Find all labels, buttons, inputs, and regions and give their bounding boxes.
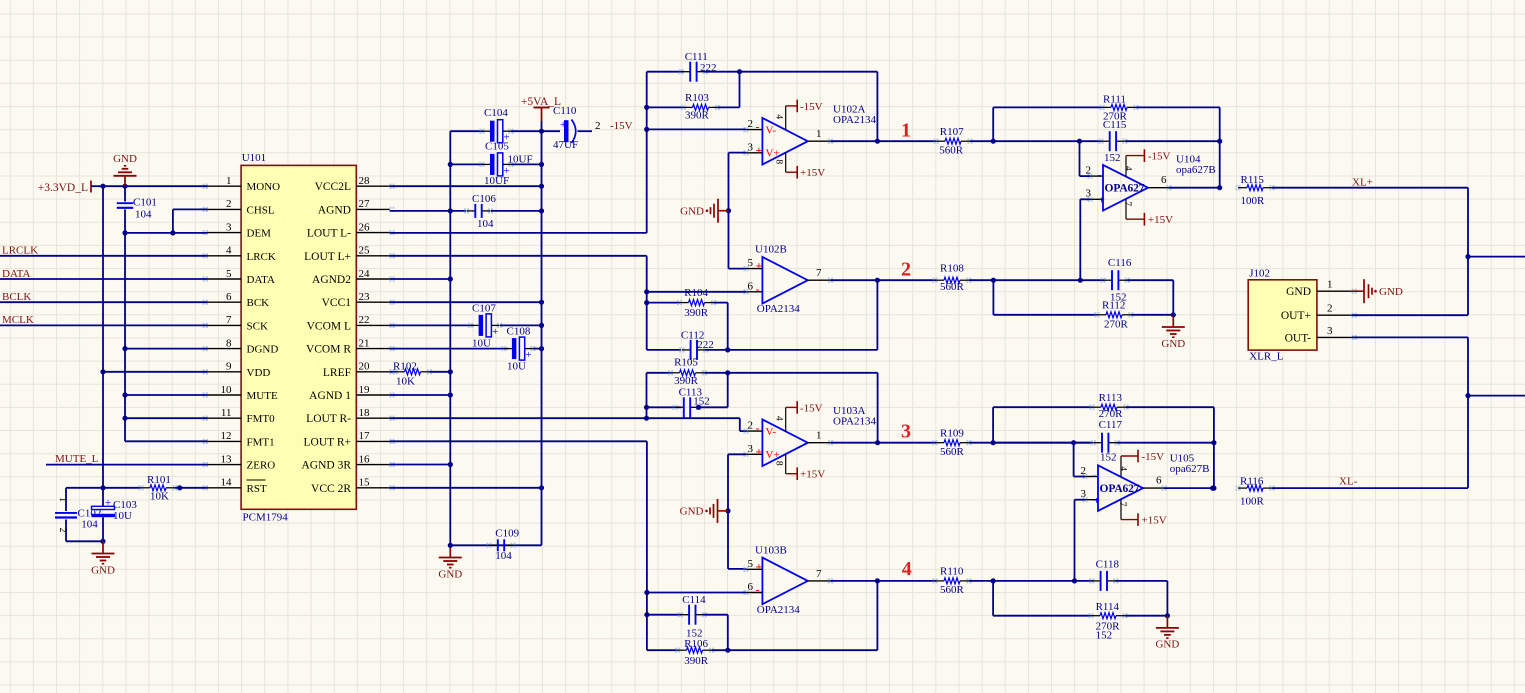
svg-text:CHSL: CHSL (247, 204, 275, 216)
svg-text:AGND 3R: AGND 3R (301, 460, 351, 472)
svg-text:GND: GND (1155, 639, 1179, 651)
svg-text:2: 2 (1327, 303, 1333, 315)
svg-text:C105: C105 (485, 141, 509, 153)
svg-text:LREF: LREF (323, 367, 351, 379)
svg-text:opa627B: opa627B (1176, 164, 1216, 176)
svg-text:560R: 560R (940, 584, 965, 596)
svg-text:6: 6 (748, 280, 754, 292)
svg-text:R103: R103 (685, 92, 709, 104)
svg-text:OPA2134: OPA2134 (757, 604, 800, 616)
svg-text:3: 3 (901, 421, 911, 443)
svg-text:24: 24 (359, 268, 371, 280)
svg-text:+: + (492, 326, 498, 338)
svg-text:C116: C116 (1108, 257, 1132, 269)
svg-text:PCM1794: PCM1794 (243, 512, 289, 524)
svg-text:VCC1: VCC1 (322, 297, 352, 309)
svg-text:C109: C109 (495, 528, 519, 540)
svg-text:C108: C108 (507, 326, 531, 338)
svg-text:104: 104 (477, 218, 494, 230)
svg-text:2: 2 (57, 528, 68, 533)
svg-text:6: 6 (226, 291, 232, 303)
svg-text:R102: R102 (393, 360, 417, 372)
svg-text:4: 4 (1123, 166, 1133, 171)
svg-text:100R: 100R (1240, 496, 1265, 508)
svg-text:MCLK: MCLK (2, 314, 34, 326)
svg-text:+15V: +15V (1142, 515, 1167, 527)
svg-text:-: - (1093, 470, 1097, 482)
svg-text:4: 4 (1118, 466, 1128, 471)
svg-text:2: 2 (595, 120, 601, 132)
svg-text:104: 104 (81, 519, 98, 531)
svg-text:14: 14 (221, 477, 233, 489)
svg-text:10K: 10K (396, 376, 415, 388)
svg-text:R116: R116 (1240, 476, 1264, 488)
svg-text:+: + (525, 349, 531, 361)
svg-text:XL-: XL- (1339, 476, 1358, 488)
svg-text:-15V: -15V (800, 101, 823, 113)
svg-text:C118: C118 (1096, 559, 1120, 571)
svg-text:+: + (1094, 495, 1100, 507)
svg-text:U101: U101 (242, 152, 266, 164)
svg-text:R111: R111 (1103, 94, 1126, 106)
svg-text:6: 6 (1161, 174, 1167, 186)
svg-text:25: 25 (359, 245, 371, 257)
svg-text:7: 7 (816, 568, 822, 580)
svg-text:100R: 100R (1241, 195, 1266, 207)
svg-text:LOUT R+: LOUT R+ (304, 436, 351, 448)
svg-text:-15V: -15V (800, 402, 823, 414)
svg-text:GND: GND (438, 568, 462, 580)
svg-text:-: - (756, 421, 760, 435)
svg-text:GND: GND (91, 564, 115, 576)
svg-text:152: 152 (1096, 630, 1113, 642)
svg-text:152: 152 (1104, 152, 1121, 164)
svg-text:390R: 390R (684, 307, 709, 319)
svg-text:MUTE: MUTE (247, 390, 278, 402)
svg-text:6: 6 (748, 581, 754, 593)
svg-text:+: + (756, 559, 763, 573)
svg-text:1: 1 (901, 120, 911, 142)
svg-text:U102B: U102B (755, 244, 787, 256)
svg-text:R107: R107 (940, 126, 964, 138)
svg-text:2: 2 (1081, 465, 1087, 477)
svg-text:560R: 560R (939, 145, 964, 157)
svg-text:2: 2 (1086, 164, 1092, 176)
svg-text:18: 18 (359, 407, 371, 419)
svg-text:3: 3 (1086, 188, 1092, 200)
svg-text:V-: V- (766, 426, 777, 438)
svg-text:10U: 10U (113, 510, 132, 522)
svg-text:SCK: SCK (247, 320, 268, 332)
svg-text:OPA2134: OPA2134 (833, 416, 876, 428)
svg-text:8: 8 (226, 337, 232, 349)
svg-text:6: 6 (1156, 475, 1162, 487)
svg-text:4: 4 (226, 245, 232, 257)
svg-text:15: 15 (359, 477, 371, 489)
svg-text:R113: R113 (1099, 392, 1123, 404)
svg-text:222: 222 (697, 339, 714, 351)
svg-text:C117: C117 (1099, 419, 1123, 431)
svg-text:20: 20 (359, 361, 371, 373)
svg-text:GND: GND (680, 206, 704, 218)
svg-text:-15V: -15V (1148, 151, 1171, 163)
svg-text:10UF: 10UF (484, 175, 509, 187)
svg-text:BCLK: BCLK (2, 291, 31, 303)
svg-text:V+: V+ (766, 148, 780, 160)
svg-text:9: 9 (226, 361, 232, 373)
svg-text:13: 13 (221, 453, 233, 465)
svg-text:C110: C110 (553, 105, 577, 117)
svg-text:R112: R112 (1102, 300, 1125, 312)
svg-text:RST: RST (247, 483, 267, 495)
svg-text:C115: C115 (1103, 119, 1127, 131)
svg-text:+15V: +15V (1148, 214, 1173, 226)
svg-text:4: 4 (902, 558, 912, 580)
svg-text:560R: 560R (940, 281, 965, 293)
svg-text:OPA627: OPA627 (1105, 183, 1145, 195)
svg-text:C101: C101 (133, 197, 157, 209)
svg-text:C106: C106 (472, 193, 496, 205)
svg-text:104: 104 (495, 550, 512, 562)
svg-text:+: + (560, 119, 566, 131)
svg-text:AGND: AGND (318, 204, 351, 216)
svg-text:3: 3 (226, 221, 232, 233)
svg-text:3: 3 (1327, 325, 1333, 337)
svg-text:BCK: BCK (247, 297, 270, 309)
svg-text:1: 1 (816, 128, 822, 140)
svg-text:390R: 390R (685, 109, 710, 121)
svg-text:XLR_L: XLR_L (1249, 351, 1284, 363)
svg-text:-: - (756, 120, 760, 134)
svg-text:DATA: DATA (247, 274, 276, 286)
svg-text:2: 2 (901, 259, 911, 281)
svg-text:+: + (1099, 195, 1105, 207)
svg-text:C114: C114 (682, 594, 706, 606)
svg-text:222: 222 (700, 62, 717, 74)
svg-text:26: 26 (359, 221, 371, 233)
svg-text:7: 7 (226, 314, 232, 326)
svg-text:V-: V- (766, 125, 777, 137)
svg-text:VCC2L: VCC2L (315, 181, 351, 193)
svg-text:+: + (105, 497, 111, 509)
svg-text:27: 27 (359, 198, 371, 210)
svg-text:104: 104 (135, 209, 152, 221)
svg-text:FMT1: FMT1 (247, 436, 275, 448)
svg-text:152: 152 (693, 395, 710, 407)
svg-text:28: 28 (359, 175, 371, 187)
svg-text:VCC 2R: VCC 2R (311, 483, 351, 495)
svg-text:GND: GND (1161, 338, 1185, 350)
svg-text:J102: J102 (1249, 268, 1270, 280)
svg-text:+: + (756, 143, 763, 157)
svg-text:-: - (756, 583, 760, 597)
svg-text:8: 8 (774, 159, 784, 164)
svg-text:R115: R115 (1241, 174, 1265, 186)
svg-text:11: 11 (221, 407, 232, 419)
svg-text:2: 2 (226, 198, 232, 210)
svg-text:7: 7 (1122, 201, 1132, 206)
svg-text:8: 8 (774, 461, 784, 466)
svg-text:AGND2: AGND2 (312, 274, 351, 286)
svg-text:47UF: 47UF (553, 139, 578, 151)
svg-text:5: 5 (748, 257, 754, 269)
svg-text:VDD: VDD (247, 367, 271, 379)
svg-text:DGND: DGND (247, 344, 279, 356)
svg-text:GND: GND (113, 153, 137, 165)
svg-text:4: 4 (774, 114, 784, 119)
svg-text:+: + (756, 444, 763, 458)
svg-text:OPA2134: OPA2134 (757, 303, 800, 315)
svg-text:10UF: 10UF (508, 154, 533, 166)
svg-text:10: 10 (221, 384, 233, 396)
svg-text:270R: 270R (1104, 319, 1129, 331)
svg-text:+15V: +15V (800, 167, 825, 179)
svg-text:3: 3 (1081, 488, 1087, 500)
svg-text:ZERO: ZERO (247, 460, 276, 472)
svg-text:C107: C107 (472, 303, 496, 315)
svg-text:R110: R110 (940, 566, 964, 578)
svg-text:U103B: U103B (755, 544, 787, 556)
svg-text:GND: GND (1379, 286, 1403, 298)
svg-text:OUT-: OUT- (1285, 332, 1312, 344)
svg-text:1: 1 (57, 497, 68, 502)
svg-text:R106: R106 (684, 638, 708, 650)
svg-text:DEM: DEM (247, 228, 272, 240)
svg-text:DATA: DATA (2, 268, 31, 280)
svg-text:LRCLK: LRCLK (2, 245, 38, 257)
svg-text:152: 152 (1100, 452, 1117, 464)
svg-text:19: 19 (359, 384, 371, 396)
svg-text:+3.3VD_L: +3.3VD_L (38, 182, 88, 194)
svg-text:VCOM R: VCOM R (306, 344, 351, 356)
svg-text:1: 1 (226, 175, 232, 187)
svg-text:GND: GND (680, 506, 704, 518)
svg-text:21: 21 (359, 337, 370, 349)
svg-text:17: 17 (359, 430, 371, 442)
svg-text:560R: 560R (940, 446, 965, 458)
svg-text:-: - (756, 282, 760, 296)
svg-text:R101: R101 (147, 474, 171, 486)
svg-text:LRCK: LRCK (247, 251, 276, 263)
svg-text:16: 16 (359, 453, 371, 465)
svg-text:-15V: -15V (1142, 451, 1165, 463)
svg-text:3: 3 (748, 141, 754, 153)
svg-text:GND: GND (1286, 286, 1311, 298)
svg-text:2: 2 (748, 420, 754, 432)
svg-text:LOUT L-: LOUT L- (307, 228, 351, 240)
svg-text:LOUT R-: LOUT R- (306, 413, 351, 425)
svg-text:MUTE_L: MUTE_L (55, 453, 99, 465)
svg-text:AGND 1: AGND 1 (309, 390, 351, 402)
svg-text:3: 3 (748, 443, 754, 455)
svg-text:1: 1 (816, 430, 822, 442)
svg-text:V+: V+ (766, 449, 780, 461)
svg-text:R114: R114 (1096, 601, 1120, 613)
svg-text:MONO: MONO (247, 181, 281, 193)
svg-text:22: 22 (359, 314, 370, 326)
svg-text:390R: 390R (684, 655, 709, 667)
svg-text:10K: 10K (150, 491, 169, 503)
svg-text:+: + (756, 259, 763, 273)
svg-text:OUT+: OUT+ (1281, 310, 1311, 322)
svg-text:2: 2 (748, 118, 754, 130)
svg-text:+15V: +15V (800, 469, 825, 481)
svg-text:XL+: XL+ (1352, 176, 1373, 188)
svg-text:7: 7 (1117, 502, 1127, 507)
svg-text:23: 23 (359, 291, 371, 303)
svg-text:R108: R108 (940, 263, 964, 275)
svg-text:7: 7 (816, 267, 822, 279)
svg-text:10U: 10U (507, 361, 526, 373)
svg-text:C104: C104 (484, 107, 508, 119)
svg-text:OPA2134: OPA2134 (833, 114, 876, 126)
svg-text:FMT0: FMT0 (247, 413, 276, 425)
svg-text:4: 4 (774, 416, 784, 421)
svg-text:opa627B: opa627B (1170, 463, 1210, 475)
svg-text:R105: R105 (674, 356, 698, 368)
svg-text:-15V: -15V (610, 120, 633, 132)
svg-text:VCOM L: VCOM L (307, 320, 351, 332)
svg-text:OPA627: OPA627 (1100, 483, 1140, 495)
svg-text:-: - (1098, 169, 1102, 181)
svg-text:R104: R104 (684, 287, 708, 299)
svg-text:R109: R109 (940, 428, 964, 440)
svg-text:5: 5 (748, 558, 754, 570)
svg-text:12: 12 (221, 430, 232, 442)
svg-text:5: 5 (226, 268, 232, 280)
svg-text:LOUT L+: LOUT L+ (304, 251, 351, 263)
svg-text:1: 1 (1327, 279, 1333, 291)
